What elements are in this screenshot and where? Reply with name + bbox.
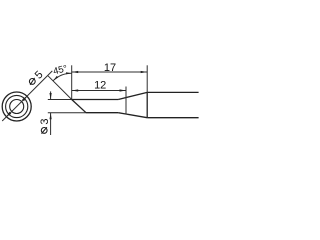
svg-text:3: 3 [39,119,51,125]
extension line right of 17 [146,65,148,92]
arrowhead Ø5 lower-left [6,112,11,117]
tip bottom edge (Ø3 cylinder) [86,112,118,114]
arrowhead arc left [53,76,58,81]
arrowhead 12 right [120,89,127,91]
bevel face line (45° cut) [72,100,86,113]
dimension line Ø5 (45° through circle center) [2,71,52,121]
extension line right of 12 [125,87,127,115]
arrowhead 17 left [72,71,79,73]
taper bottom line [118,113,147,118]
arrowhead 12 left [72,89,79,91]
Ø3 dimension line lower tail [50,113,52,135]
svg-text:45°: 45° [52,63,69,77]
tip top edge (Ø3 cylinder) [72,99,119,101]
sleeve bottom edge [147,117,198,119]
dimension line 17 [72,71,148,73]
taper top line [118,92,147,99]
end-view middle circle [6,95,28,117]
arrowhead 17 right [141,71,148,73]
label 12 [94,79,106,91]
label Ø5 [29,69,45,85]
end-view outer circle (sleeve) [2,92,31,121]
arrowhead Ø3 top (pointing down) [50,93,52,100]
dimension line 12 [72,90,126,92]
sleeve top edge [147,91,198,93]
extension line left (shared by 17 and 12) [71,65,73,99]
arrowhead arc right [66,72,72,74]
label Ø3 (rotated 90°) [39,119,51,134]
arrowhead Ø3 bottom (pointing up) [50,113,52,120]
Ø3 extension line top [48,99,72,101]
svg-text:12: 12 [94,79,106,91]
end-view inner circle (tip face) [10,100,24,114]
Ø3 extension line bottom [48,112,86,114]
label 45° [52,63,69,77]
arrowhead Ø5 upper-right [22,96,27,101]
svg-text:17: 17 [104,62,116,74]
Ø3 dimension line upper tail [50,91,52,99]
label 17 [104,62,116,74]
angle arc 45° [53,73,72,81]
sleeve left face [146,92,148,117]
bevel extension line (45° construction) [48,76,72,100]
